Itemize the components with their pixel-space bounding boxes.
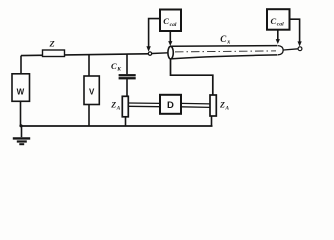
svg-text:C: C: [111, 61, 117, 71]
svg-text:cal: cal: [170, 22, 177, 28]
svg-text:K: K: [116, 66, 121, 72]
svg-text:A: A: [224, 105, 229, 111]
svg-text:V: V: [89, 88, 95, 97]
svg-text:x: x: [226, 39, 230, 45]
svg-text:cal: cal: [277, 21, 284, 27]
svg-text:C: C: [271, 16, 277, 26]
svg-text:Z: Z: [110, 101, 116, 110]
svg-text:Z: Z: [219, 101, 225, 110]
svg-text:A: A: [116, 105, 121, 111]
svg-text:C: C: [163, 16, 169, 26]
svg-text:W: W: [17, 87, 25, 96]
svg-text:Z: Z: [49, 39, 55, 49]
svg-text:D: D: [167, 100, 174, 111]
